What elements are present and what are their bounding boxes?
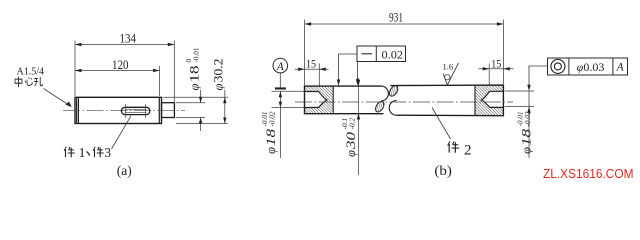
right 15 extension line: [488, 64, 490, 85]
extension line 931 right: [502, 20, 504, 85]
straightness frame: [357, 46, 406, 62]
centerline (a): [63, 110, 185, 112]
svg-text:φ0.03: φ0.03: [577, 60, 605, 74]
svg-text:φ18-0.01-0.02: φ18-0.01-0.02: [261, 111, 278, 154]
svg-text:931: 931: [389, 9, 403, 24]
svg-text:1.6: 1.6: [443, 62, 454, 72]
left chamfer line: [77, 97, 79, 123]
centerline (b): [295, 101, 513, 103]
left 15 extension line: [318, 64, 320, 86]
datum stem: [279, 73, 281, 88]
svg-text:3: 3: [105, 146, 112, 161]
keyway slot: [121, 107, 149, 114]
svg-text:(b): (b): [434, 163, 452, 178]
right bore outline: [482, 91, 504, 107]
dimension 931 line: [305, 23, 504, 25]
keyway inner lines: [125, 108, 147, 110]
extension line left (134/120): [74, 41, 76, 97]
label 中心孔: [15, 77, 22, 88]
concentricity frame: [548, 58, 628, 75]
shaft (b) outer outline left segment: [305, 86, 384, 114]
svg-text:φ30.2: φ30.2: [212, 59, 226, 91]
shaft (b) right section wall hatch: [475, 85, 504, 116]
shaft body (a) outline: [75, 97, 162, 123]
right transition line: [474, 85, 476, 115]
leader for 件1件3: [112, 116, 132, 149]
leader for center hole: [44, 89, 70, 106]
extension line right of 120: [159, 66, 161, 96]
svg-text:A: A: [616, 62, 625, 74]
concentricity frame leader: [529, 66, 548, 85]
svg-text:φ18-0.01-0.02: φ18-0.01-0.02: [517, 111, 534, 154]
dimension 120 line: [75, 70, 160, 72]
left transition line: [332, 86, 334, 113]
roughness symbol 1.6: [443, 63, 458, 85]
extension line 931 left: [304, 20, 306, 86]
svg-text:A1.5/4: A1.5/4: [17, 65, 45, 77]
break S-curve left: [381, 86, 388, 101]
φ30 dimension line with outside arrows: [358, 78, 360, 175]
svg-text:134: 134: [119, 31, 136, 46]
svg-text:ZL.XS1616.COM: ZL.XS1616.COM: [543, 166, 634, 181]
dimension 15 right: [478, 68, 513, 70]
svg-text:A: A: [276, 61, 285, 73]
dimension φ18 vertical line with outside arrows: [200, 90, 202, 103]
concentricity symbol: [551, 59, 565, 73]
svg-text:2: 2: [464, 143, 472, 159]
svg-text:(a): (a): [117, 163, 132, 178]
datum A circle: [273, 58, 288, 73]
dimension φ30.2 vertical line with inside arrows: [224, 90, 226, 124]
left φ18 extension lines: [272, 90, 305, 92]
left bore outline: [305, 92, 327, 108]
dimension 15 left: [295, 68, 329, 70]
svg-text:120: 120: [112, 57, 129, 72]
shaft (b) left section wall hatch: [305, 86, 334, 113]
straightness leader 2: [357, 62, 359, 81]
dimension 134 line: [75, 44, 174, 46]
extension lines for φ18 (stub): [176, 102, 205, 104]
extension lines for φ30.2 (body): [163, 96, 228, 98]
svg-text:15: 15: [491, 56, 501, 70]
right φ18 dimension line with inside arrows: [528, 91, 530, 158]
keyway arc center ticks: [124, 104, 126, 118]
extension line right of 134: [173, 41, 175, 102]
straightness leader 1: [339, 54, 358, 80]
svg-text:15: 15: [306, 57, 316, 71]
right chamfer line: [158, 97, 160, 123]
leader 件2: [432, 108, 451, 140]
datum bar: [275, 87, 286, 89]
svg-text:0.02: 0.02: [382, 47, 404, 61]
svg-text:1: 1: [79, 146, 86, 161]
right stub φ18: [162, 103, 175, 118]
straightness symbol: [362, 53, 373, 55]
right φ18 extension lines: [505, 90, 535, 92]
break S-curve right: [389, 101, 396, 116]
label 件2: [448, 141, 459, 152]
label 件1、件3: [64, 147, 75, 158]
left φ18 dimension line with inside arrows: [279, 91, 281, 158]
shaft (b) outer outline right segment: [390, 85, 503, 116]
